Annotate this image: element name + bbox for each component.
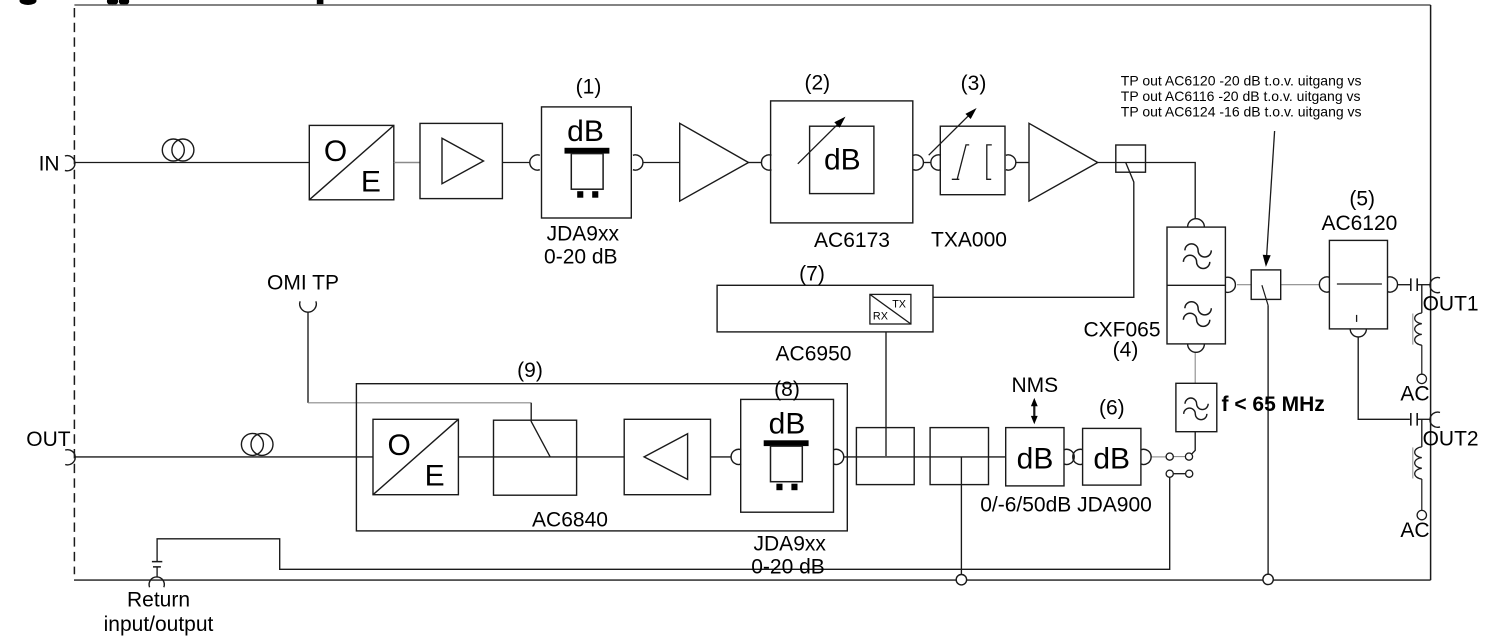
capacitor OUT2 (1411, 413, 1417, 426)
svg-text:dB: dB (1017, 442, 1054, 475)
wire AC6120 bottom port to OUT2 (1358, 337, 1410, 419)
wire OUT row (OUT connector to dB(8)) (75, 456, 731, 458)
frame top border (74, 4, 1430, 6)
svg-text:(9): (9) (517, 359, 543, 382)
AC power terminal OUT2 (1417, 510, 1426, 519)
svg-text:f < 65 MHz: f < 65 MHz (1222, 393, 1325, 416)
wire amplifier through tap to CXF065 (1098, 163, 1196, 219)
frame right border (1430, 5, 1432, 580)
arrow (3) variable indicator (929, 108, 977, 155)
connector dB(1) input (530, 155, 540, 170)
connector OUT2 (frame) (1430, 412, 1440, 427)
svg-text:0-20 dB: 0-20 dB (544, 246, 618, 269)
svg-text:input/output: input/output (104, 613, 214, 636)
test point coupler (5) (1251, 270, 1281, 305)
wire tap to AC6950 modem (933, 163, 1134, 298)
wire AC6173 output to TXA000 input (923, 162, 931, 164)
wire AC6120 output to capacitor (1397, 284, 1410, 286)
svg-text:dB: dB (769, 407, 806, 440)
O/E converter (input receiver) (309, 125, 394, 199)
AC choke OUT2 (1413, 447, 1422, 511)
wire junction box down to frame junction (960, 457, 962, 575)
AC choke OUT1 (1413, 313, 1422, 374)
junction on frame (return of junction box B) (956, 575, 966, 585)
svg-text:(8): (8) (774, 378, 800, 401)
svg-text:(6): (6) (1099, 397, 1125, 420)
O/E converter (return transmitter E/O) (373, 419, 458, 494)
wire switch row 2 bridge (1173, 473, 1185, 475)
connector OUT (frame) (65, 450, 75, 465)
wire O/E to amplifier (394, 162, 420, 164)
diplex filter (4) CXF065 (1167, 219, 1235, 353)
svg-text:E: E (425, 459, 445, 492)
wire low pass filter to switch (1192, 432, 1195, 454)
wire dB(8) to 0/-6 attenuator through junction boxes (844, 456, 1006, 458)
frame bottom border (74, 579, 1431, 581)
svg-text:dB: dB (1093, 442, 1130, 475)
svg-text:E: E (361, 165, 381, 198)
wire CXF065 to test point (5) (1237, 284, 1251, 286)
connector TXA000 output (1006, 155, 1016, 170)
wire TXA000 output to amplifier (1016, 162, 1029, 164)
OMI switch box in AC6840 (494, 420, 577, 495)
svg-text:TP out AC6120 -20 dB t.o.v. ui: TP out AC6120 -20 dB t.o.v. uitgang vs (1121, 73, 1362, 89)
connector AC6173 output (913, 155, 923, 170)
svg-text:dB: dB (824, 144, 861, 177)
svg-text:O: O (324, 135, 347, 168)
slope equalizer (3) TXA000 (940, 126, 1005, 195)
svg-text:OMI TP: OMI TP (267, 272, 339, 295)
connector JDA900 input (1073, 449, 1083, 464)
switch contact row1 right (1185, 453, 1192, 460)
wire capacitor to OUT1 connector (1417, 284, 1430, 286)
connector dB(1) output (633, 155, 643, 170)
svg-text:Return: Return (127, 589, 190, 612)
low pass filter f<65MHz (1176, 383, 1217, 431)
wire CXF065 to low pass filter (1194, 353, 1196, 384)
wire IN to dB(1) input connector (75, 162, 530, 164)
connector IN (frame) (65, 156, 75, 171)
return amplifier (reversed) (624, 419, 710, 494)
svg-text:IN: IN (39, 153, 60, 176)
attenuator (6) JDA900 (1083, 428, 1141, 485)
attenuator 0/-6/50dB (1006, 428, 1064, 486)
svg-text:TP out AC6116 -20 dB t.o.v. ui: TP out AC6116 -20 dB t.o.v. uitgang vs (1121, 88, 1361, 104)
svg-text:(5): (5) (1349, 188, 1375, 211)
AC power terminal OUT1 (1417, 374, 1426, 383)
wire JDA900 output to switch contact (1151, 456, 1166, 458)
fiber coil at OUT (241, 433, 273, 455)
junction box B on return path (930, 428, 988, 485)
svg-text:0/-6/50dB JDA900: 0/-6/50dB JDA900 (980, 494, 1152, 517)
return hybrid outer box (9) AC6840 (356, 384, 847, 531)
wire OUT1 branch to AC choke (1421, 285, 1423, 313)
NMS arrow (double headed) (1031, 398, 1038, 424)
svg-text:dB: dB (567, 115, 604, 148)
wire capacitor to OUT2 connector (1417, 418, 1430, 420)
svg-text:AC6840: AC6840 (532, 509, 608, 532)
attenuator (1) JDA9xx (542, 107, 632, 218)
connector 0/-6 attenuator output (1064, 449, 1074, 464)
fiber coil at IN (162, 139, 194, 161)
svg-text:0-20 dB: 0-20 dB (751, 556, 825, 579)
wire amplifier to AC6173 input (749, 162, 762, 164)
svg-text:AC6950: AC6950 (776, 343, 852, 366)
svg-text:TP out AC6124 -16 dB t.o.v. ui: TP out AC6124 -16 dB t.o.v. uitgang vs (1121, 104, 1362, 120)
wire OMI TP monitor line (308, 402, 531, 404)
wire return path from switch to return capacitor (157, 477, 1170, 569)
connector OMI TP (test point) (300, 301, 317, 312)
wire dB(1) output to amplifier (643, 162, 680, 164)
frame left border (dashed) (73, 8, 75, 574)
svg-text:(7): (7) (799, 263, 825, 286)
capacitor OUT1 (1411, 278, 1417, 291)
connector TXA000 input (931, 155, 941, 170)
svg-text:AC6120: AC6120 (1321, 212, 1397, 235)
svg-text:RX: RX (873, 311, 888, 323)
svg-text:(2): (2) (804, 72, 830, 95)
switch contact row2 right (1186, 470, 1193, 477)
connector AC6173 input (761, 155, 771, 170)
attenuator (8) JDA9xx return (741, 399, 834, 512)
wire OMI TP vertical drop (307, 312, 309, 402)
output coupler (5) AC6120 (1319, 240, 1397, 337)
wire test point (5) drop to frame junction (1267, 305, 1269, 574)
svg-text:TXA000: TXA000 (931, 229, 1007, 252)
wire OUT2 branch to AC choke (1421, 419, 1423, 447)
svg-text:(1): (1) (576, 76, 602, 99)
amplifier A2 (680, 123, 749, 201)
switch contact row1 left (1166, 453, 1173, 460)
svg-text:O: O (388, 429, 411, 462)
svg-text:OUT2: OUT2 (1423, 428, 1479, 451)
svg-text:AC: AC (1400, 383, 1429, 406)
svg-text:JDA9xx: JDA9xx (754, 533, 827, 556)
connector JDA900 output (1141, 449, 1151, 464)
svg-text:AC6173: AC6173 (814, 229, 890, 252)
switch contact row2 left (1166, 470, 1173, 477)
svg-text:NMS: NMS (1011, 374, 1058, 397)
wire AC6950 modem down to junction box (885, 324, 887, 456)
svg-text:(3): (3) (961, 72, 987, 95)
connector Return input/output (frame) (149, 577, 164, 587)
arrow from TP note to test point (5) (1263, 131, 1275, 267)
capacitor at return connector (152, 562, 162, 567)
svg-text:TX: TX (892, 298, 906, 310)
wire return capacitor to return connector (156, 567, 158, 577)
wire test point (5) to AC6120 (1281, 284, 1320, 286)
junction box A on return path (856, 428, 914, 485)
connector OUT1 (frame) (1430, 278, 1440, 293)
svg-text:OUT: OUT (26, 428, 71, 451)
svg-text:AC: AC (1400, 519, 1429, 542)
caption text remnant (cropped descenders) (20, 0, 324, 6)
wire switch row 1 bridge (1173, 456, 1185, 458)
connector dB(8) output (834, 449, 844, 464)
junction on frame (test point drop) (1263, 574, 1273, 584)
variable attenuator (2) AC6173 (771, 101, 913, 223)
svg-text:(4): (4) (1113, 339, 1139, 362)
amplifier A3 (1029, 123, 1098, 201)
amplifier A1 (420, 123, 502, 198)
switch lever in AC6840 (531, 403, 550, 457)
transponder (7) AC6950 (717, 285, 933, 332)
tap / directional coupler at forward output (1116, 145, 1146, 172)
svg-text:OUT1: OUT1 (1423, 292, 1479, 315)
svg-text:JDA9xx: JDA9xx (547, 223, 620, 246)
connector dB(8) input (731, 449, 741, 464)
